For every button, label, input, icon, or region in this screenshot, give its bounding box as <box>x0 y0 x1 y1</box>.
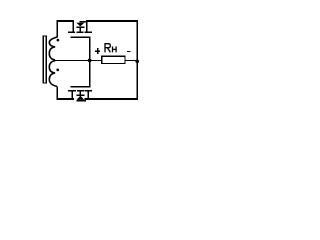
wire: top armature bar (reed) <box>70 36 90 38</box>
wire: center tap from secondary <box>55 60 90 61</box>
wire: bottom armature bar (reed) <box>71 86 91 88</box>
wire: center riser (reed to center node) <box>89 36 91 87</box>
diode VD1 triangle <box>76 23 84 27</box>
node: center junction <box>88 59 92 63</box>
label minus <box>127 51 131 52</box>
contact K2 plate bar <box>85 31 92 33</box>
contact K3 plate bar <box>68 90 76 92</box>
wire: top rail right segment <box>86 20 138 22</box>
wire: load right terminal <box>125 60 138 61</box>
transformer T1 primary winding (narrow rectangle) <box>42 35 47 83</box>
contact K3 stem (to bottom rail) <box>72 92 74 99</box>
contact K4 stem (to bottom rail) <box>88 92 89 99</box>
diode VD1 anode lead (top) <box>80 21 88 23</box>
node: right junction <box>135 59 139 63</box>
contact K1 stem (from top rail) <box>72 20 73 31</box>
contact K4 plate bar <box>85 90 92 92</box>
diode VD2 cathode bar <box>76 94 84 95</box>
diode VD2 triangle <box>76 96 84 100</box>
wire: bottom rail right segment <box>84 98 137 100</box>
polarity dot (secondary upper half) <box>57 39 60 42</box>
wire: to load left terminal <box>90 60 103 61</box>
diode VD2 anode lead (bottom) <box>76 100 85 102</box>
diode VD1 cathode stem <box>80 28 81 32</box>
wire: top rail left segment <box>56 20 74 22</box>
diode VD1 plate bar <box>77 31 84 33</box>
wire: riser from secondary top to top rail <box>56 20 58 37</box>
wire: riser from secondary bottom <box>57 86 58 99</box>
diode VD2 cathode stem <box>80 92 81 95</box>
contact K1 plate bar <box>68 31 75 33</box>
polarity dot (secondary lower half) <box>56 69 59 72</box>
diode VD1 cathode bar <box>76 26 84 27</box>
label + <box>95 48 100 54</box>
contact K2 stem (from top rail) <box>86 21 87 32</box>
diode VD2 plate bar <box>77 90 84 92</box>
transformer T1 secondary winding (four arcs) <box>49 37 57 87</box>
wire: right side vertical <box>136 20 138 100</box>
wire: bottom rail left segment <box>57 98 74 100</box>
label RH <box>105 44 116 53</box>
diode VD2 anode step <box>84 98 85 101</box>
resistor RH (load) body <box>102 56 125 63</box>
